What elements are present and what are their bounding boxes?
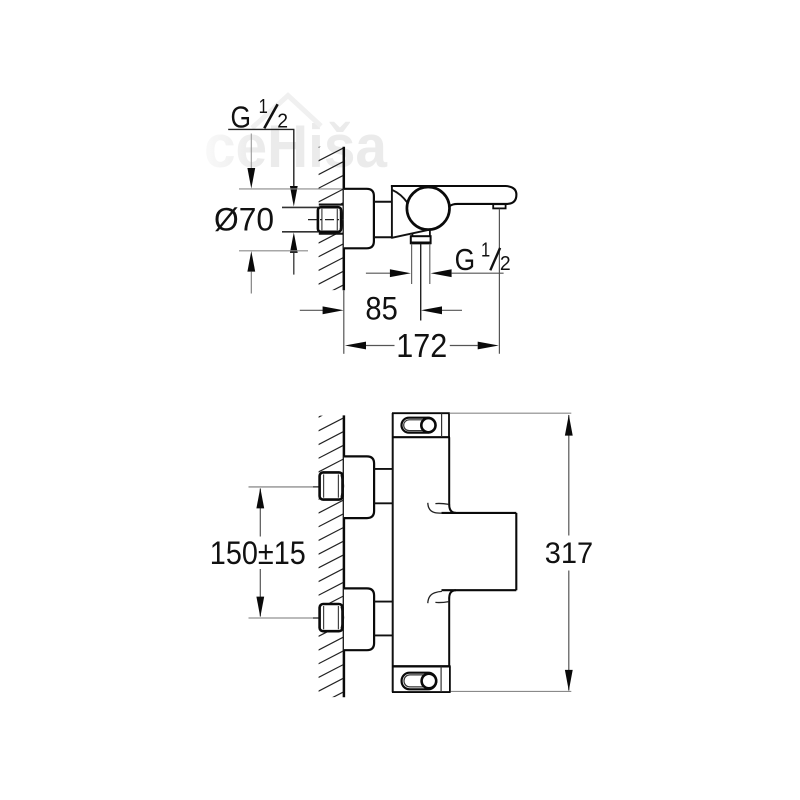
supply pipe top line — [282, 206, 319, 208]
dimension 317 line upper — [568, 415, 570, 536]
svg-text:1: 1 — [259, 96, 268, 118]
wall surface line (top view) — [343, 147, 346, 291]
body bottom slant — [391, 230, 428, 238]
outlet thread right line — [429, 244, 431, 284]
body right edge upper — [448, 437, 450, 505]
union nut (side view) — [318, 207, 343, 232]
leader drop line — [293, 129, 295, 186]
inlet 1 neck lines — [374, 469, 392, 503]
inlet 2 union nut — [320, 604, 344, 631]
shower outlet left side — [411, 233, 413, 236]
outlet thread dimension arrow left — [431, 269, 452, 277]
wall hatching (top view) — [313, 132, 349, 329]
outlet thread left line — [411, 244, 413, 284]
leader underline of G 1/2 — [228, 128, 294, 130]
svg-text:2: 2 — [500, 253, 511, 275]
inlet 1 centreline — [249, 486, 346, 488]
dimension 85 arrow to wall — [323, 306, 344, 314]
Ø70 arrow down — [247, 168, 255, 189]
shower outlet nut — [411, 236, 431, 243]
dimension Ø70 witness line bottom — [239, 250, 308, 252]
inlet 1 escutcheon — [344, 456, 374, 518]
dimension Ø70 witness line top — [239, 188, 344, 190]
supply pipe bottom line — [282, 231, 319, 233]
dimension 85 arrow to centreline — [421, 306, 442, 314]
connection neck top line — [374, 201, 392, 203]
svg-text:150±15: 150±15 — [210, 535, 306, 571]
svg-text:1: 1 — [481, 240, 490, 262]
dimension 172 arrow left — [345, 342, 366, 350]
wall hatching (front view) — [313, 402, 349, 735]
arrow down to pipe top — [290, 186, 298, 207]
G 1/2 outlet fraction slash — [490, 248, 500, 270]
dimension 150±15 line upper — [259, 489, 261, 537]
Ø70 lower arrow shaft — [250, 272, 252, 294]
bottom cap outline — [392, 666, 451, 692]
body left edge (front view) — [392, 413, 394, 692]
thermostat knob circle — [407, 187, 450, 230]
shower outlet right side — [429, 230, 431, 236]
dimension 317 witness top — [450, 412, 572, 414]
spout and handle outline — [391, 186, 517, 206]
svg-text:Ø70: Ø70 — [214, 202, 274, 238]
svg-text:172: 172 — [396, 327, 447, 364]
top cap outline — [392, 413, 450, 437]
bottom cap slot — [402, 673, 437, 690]
dimension 85 right line — [442, 309, 462, 311]
inlet 2 neck lines — [374, 602, 392, 636]
label G 1/2 fraction slash — [264, 104, 277, 128]
escutcheon (side view) — [344, 189, 374, 249]
body inner curve — [392, 190, 407, 203]
wall opening edge lower — [319, 233, 345, 235]
dimension 150±15 arrow down — [256, 597, 264, 618]
inlet 2 escutcheon — [344, 588, 374, 650]
connection neck bottom line — [374, 236, 392, 238]
Ø70 arrow up — [247, 251, 255, 272]
mixer body left edge (side view) — [391, 185, 393, 238]
aerator extension line — [498, 209, 500, 354]
svg-text:317: 317 — [545, 537, 593, 570]
outlet thread dimension left line — [366, 272, 390, 274]
arrow shaft below pipe — [293, 253, 295, 275]
dimension 317 witness bottom — [451, 690, 571, 692]
svg-text:85: 85 — [365, 291, 397, 327]
outlet thread dimension arrow right — [390, 269, 411, 277]
inlet 1 union nut — [320, 472, 344, 499]
dimension 172 left line — [366, 345, 395, 347]
break curve bottom — [428, 591, 449, 603]
dimension 172 arrow right — [478, 342, 499, 350]
dimension 150±15 arrow up — [256, 488, 264, 509]
break curve top — [428, 503, 449, 513]
body right edge lower — [448, 598, 450, 666]
outlet centreline — [420, 244, 422, 321]
wing (T-section) outline — [442, 513, 517, 590]
outlet thread dimension right line — [452, 272, 504, 274]
arrow up to pipe bottom — [290, 232, 298, 253]
nut centreline (dash-dot) — [308, 219, 344, 221]
wall surface extension line — [343, 290, 345, 354]
label G 1/2 (top, inlet thread) — [231, 96, 289, 135]
dimension 85 left line — [300, 309, 323, 311]
top cap slot — [402, 418, 436, 433]
inlet 2 centreline — [249, 617, 346, 619]
dimension 317 arrow up — [565, 415, 573, 436]
svg-text:G: G — [455, 242, 476, 277]
dimension 172 right line — [450, 345, 478, 347]
wall opening edge upper — [319, 204, 345, 206]
dimension 317 line lower — [568, 571, 570, 691]
shower outlet nut bottom bar — [410, 242, 431, 245]
fillet out of wing bottom — [449, 590, 456, 598]
label G 1/2 (shower outlet) — [455, 240, 511, 277]
watermark house roof — [252, 96, 321, 129]
Ø70 upper arrow shaft — [250, 134, 252, 169]
aerator — [493, 204, 505, 208]
fillet into wing top — [449, 505, 456, 513]
wall surface line (front view) — [343, 415, 346, 697]
dimension 150±15 line lower — [259, 569, 261, 617]
watermark text ceHiša — [204, 113, 388, 180]
dimension 317 arrow down — [565, 670, 573, 691]
